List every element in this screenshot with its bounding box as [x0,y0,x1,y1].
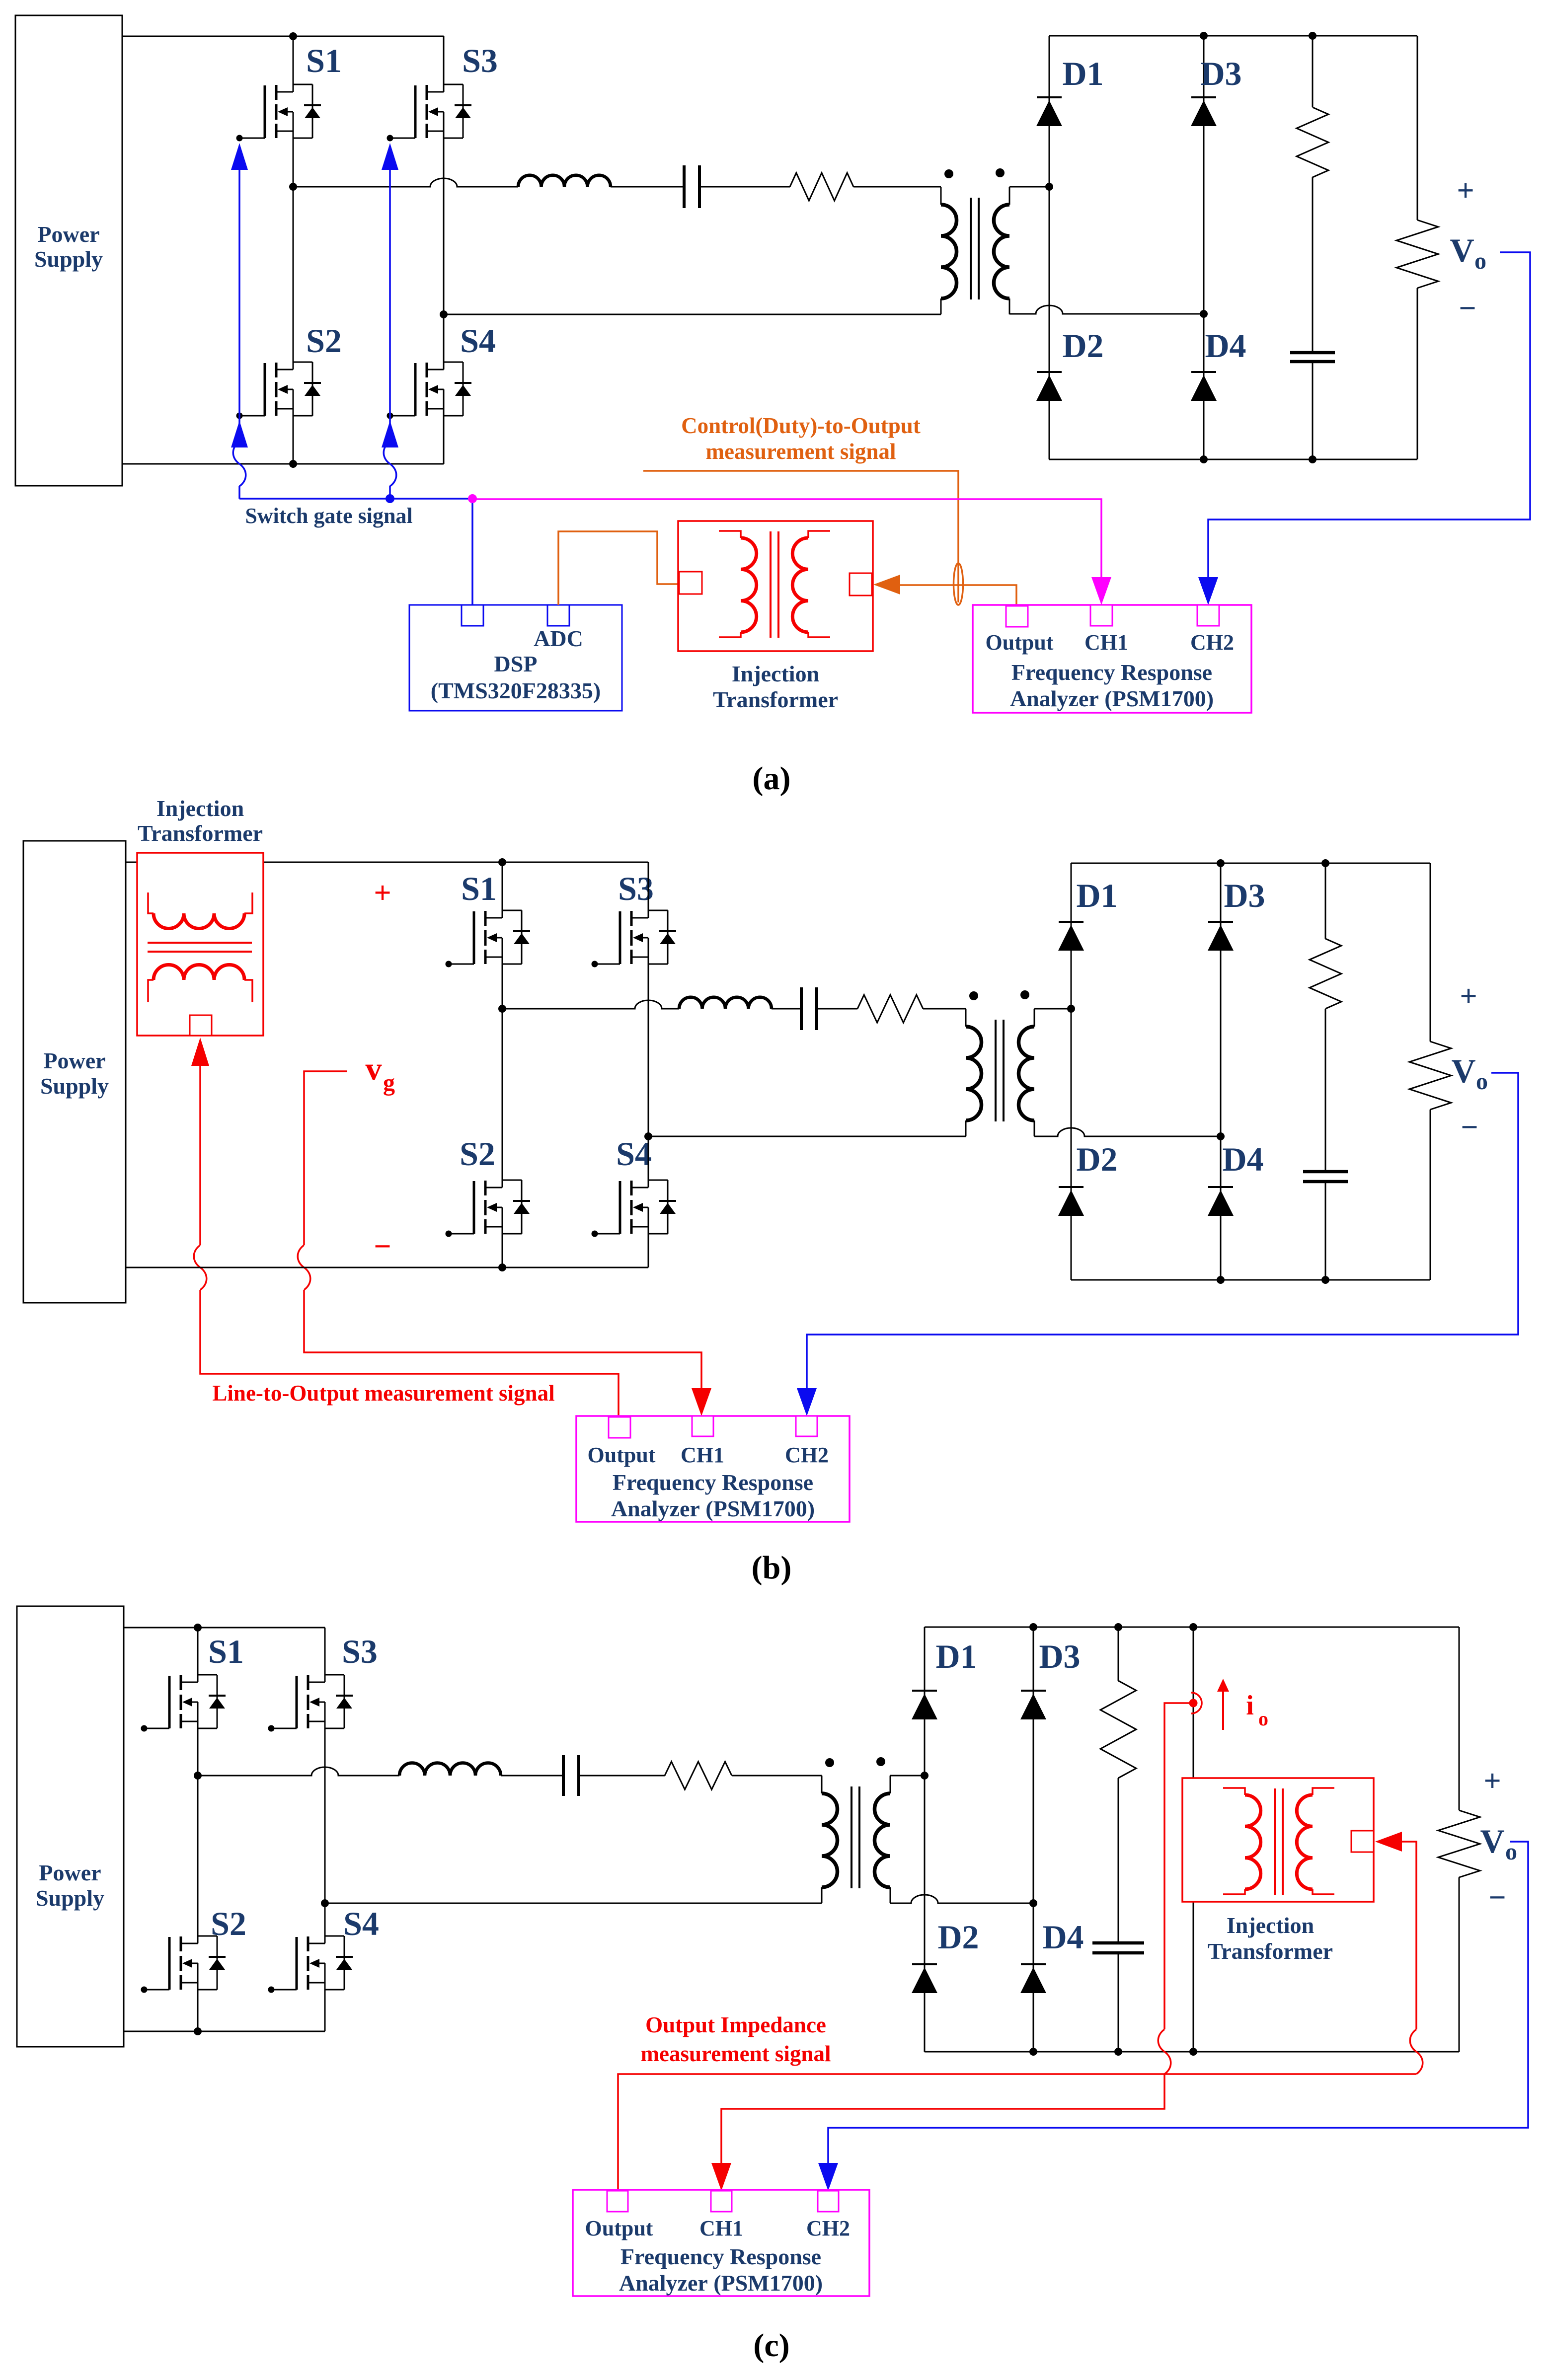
resistor Rr (b) [857,995,923,1023]
wire: secondary top to node A (c) [890,1775,925,1777]
wire: D3-D4 column (b) [1220,863,1222,1280]
svg-text:S4: S4 [616,1135,652,1173]
arrow into injection transformer (a) [873,575,900,595]
wire: bridge bottom rail (c) [925,2051,1459,2053]
node B (b) [1217,1132,1225,1140]
wire: S4 drain (b) [648,1136,649,1180]
svg-text:−: − [1488,1881,1506,1915]
wire: S2 source (a) [293,416,294,464]
wire: secondary bottom with hop (c) [890,1895,1033,1903]
diode D1 (b) [1058,922,1084,951]
transistor S2 (c) [141,1936,226,1993]
wire: S2 source (b) [502,1234,503,1267]
transformer T1 (b) [966,990,1034,1136]
svg-text:−: − [1459,292,1476,325]
arrow into CH2 (a) [1198,577,1218,605]
svg-text:D4: D4 [1042,1918,1084,1956]
port left (a) [679,572,702,594]
wire: secondary top to node A (a) [1009,186,1049,188]
svg-text:Transformer: Transformer [1208,1938,1333,1964]
wire: bottom rail (a) [122,463,444,465]
wire: load branch (c) [1459,1627,1460,1810]
injection transformer box (c) [1182,1778,1374,1902]
svg-text:S2: S2 [460,1135,495,1173]
wire: FRA output to injection transformer, red (c) [618,2074,1416,2190]
load resistor Ro (c) [1438,1810,1480,1877]
svg-text:CH1: CH1 [1084,630,1128,655]
transformer T1 (a) [941,168,1009,314]
wire: D1-D2 column (b) [1071,863,1072,1280]
frequency response analyzer box (a) [973,605,1251,713]
power supply box (c) [17,1606,124,2047]
wire: tank rail with hop (c) [198,1767,399,1776]
arrow into injection port, red (c) [1375,1832,1402,1852]
wire: bus to DSP, blue (a) [471,499,473,605]
svg-text:V: V [1480,1822,1504,1860]
svg-text:o: o [1505,1839,1517,1865]
node: S3-S4 mid (b) [644,1132,652,1140]
cable oval marker (a) [954,563,963,605]
node: S2 source junction (a) [289,460,297,468]
transistor S4 (b) [592,1180,677,1237]
svg-text:Injection: Injection [156,796,244,821]
svg-text:CH2: CH2 [1190,630,1234,655]
nodes bottom rail (b) [1217,1276,1225,1284]
wire (a) [611,186,684,188]
wire: gate signal bus, blue (a) [239,498,472,500]
svg-text:o: o [1474,248,1486,274]
wire: S3 source (b) [648,964,649,1136]
svg-text:Supply: Supply [40,1073,109,1099]
wire: S3 source to node (a) [443,138,445,314]
svg-text:+: + [1457,174,1474,208]
wire: load branch (a) [1417,36,1418,220]
arrow into CH2, blue (c) [818,2163,838,2191]
wire: io measurement to CH1, red (c) [1164,1703,1189,2029]
svg-text:Supply: Supply [34,246,103,272]
wire: gate signal line S3-S4, blue (a) [389,170,391,442]
svg-text:o: o [1476,1068,1488,1095]
arrow into CH1, red (c) [711,2163,731,2191]
node: bus junction (a) [386,494,394,503]
wire: tank rail with hop (b) [502,1000,679,1009]
svg-text:Output: Output [585,2216,653,2240]
arrow to S1 gate (a) [231,143,248,170]
wire (b) [817,1008,857,1010]
capacitor Cr (b) [801,987,817,1030]
node A (b) [1067,1005,1075,1013]
transistor S4 (c) [268,1936,353,1993]
diode D4 (a) [1191,372,1217,401]
node: top rail junctions (a) [1200,32,1208,40]
svg-text:CH2: CH2 [806,2216,850,2240]
wire: S1 source (b) [502,964,503,1009]
svg-text:D1: D1 [1076,877,1117,914]
arrow to S2 gate (a) [231,421,248,447]
DSP box (a) [409,605,622,711]
diode D4 (b) [1208,1187,1234,1216]
svg-text:D2: D2 [937,1918,979,1956]
capacitor Cr (a) [684,165,699,208]
svg-text:(TMS320F28335): (TMS320F28335) [431,678,601,703]
svg-text:DSP: DSP [494,651,538,676]
transistor S1 (c) [141,1675,226,1732]
wire: secondary top to node A (b) [1034,1008,1071,1010]
transistor S3 (a) [387,84,472,142]
svg-text:Analyzer (PSM1700): Analyzer (PSM1700) [611,1496,815,1521]
svg-text:+: + [1483,1764,1501,1798]
arrow into injection port, red (b) [191,1038,209,1066]
svg-text:(b): (b) [752,1550,792,1586]
wire: gate tap to CH1, magenta (a) [472,499,1101,577]
wire: bridge bottom rail (a) [1049,459,1417,460]
svg-text:CH1: CH1 [681,1443,724,1467]
wire: Vo sense to CH2, blue (a) [1208,252,1530,579]
svg-text:v: v [366,1051,382,1087]
node: S1-S2 mid (b) [498,1005,506,1013]
load resistor Ro (b) [1409,1041,1451,1110]
resistor Rr (a) [790,173,853,201]
wire: top rail (a) [122,36,444,37]
wire: FRA output to injection transformer, orange (a) [900,585,1016,606]
node B junction (a) [1200,310,1208,318]
current probe dot, red (c) [1189,1699,1198,1708]
wire: secondary bottom with hop (b) [1034,1128,1221,1136]
node: S1 drain (c) [194,1624,202,1632]
wire: S4 source (a) [443,416,445,464]
port bottom (b) [190,1015,212,1036]
wire: DSP ADC to injection transformer, orange (a) [558,531,679,605]
diode D2 (b) [1058,1187,1084,1216]
svg-text:S1: S1 [208,1633,244,1670]
capacitor Cr (c) [563,1755,579,1796]
node A junction (a) [1045,183,1053,191]
diode D2 (c) [912,1964,937,1993]
wire: injection drive, red (b) [199,1066,201,1245]
wire: damping branch (b) [1325,863,1326,939]
svg-text:+: + [374,876,391,910]
diode D1 (c) [912,1691,937,1719]
svg-text:D4: D4 [1222,1140,1263,1178]
arrow to S4 gate (a) [382,421,398,447]
wire: top rail left of injection box (b) [126,862,138,863]
arrow into CH2, blue (b) [797,1388,817,1416]
power supply box (a) [15,15,122,486]
wire (b) [772,1008,801,1010]
node: S1 drain junction (a) [289,32,297,40]
transistor S2 (b) [446,1180,531,1237]
svg-text:D1: D1 [1062,55,1103,92]
wire: lower tank rail (b) [648,1136,966,1137]
svg-text:S2: S2 [211,1905,246,1942]
wire: S3 source (c) [324,1728,326,1903]
node: S2 source (c) [194,2027,202,2035]
svg-text:Output Impedance: Output Impedance [645,2012,826,2037]
wire: lower tank rail (a) [444,314,941,315]
svg-text:D1: D1 [935,1637,977,1675]
port right (c) [1351,1831,1374,1852]
svg-text:S3: S3 [462,42,498,79]
injection transformer windings (a) [719,531,830,638]
svg-text:Power: Power [43,1048,105,1073]
inductor Lr (a) [518,175,611,187]
wire (a) [699,186,790,188]
wire: S3 drain (b) [648,862,649,910]
load resistor Ro (a) [1396,220,1438,288]
current probe arc, red (c) [1191,1693,1202,1713]
wire: load branch (b) [1430,863,1431,1041]
transistor S2 (a) [236,362,321,419]
svg-text:(a): (a) [753,760,791,797]
svg-text:Control(Duty)-to-Output: Control(Duty)-to-Output [681,413,921,438]
wire: bridge top rail (b) [1071,863,1430,864]
resistor Rc (a) [1297,107,1328,177]
diode D3 (b) [1208,922,1234,951]
wire: D3-D4 column (c) [1033,1627,1034,2052]
port right (a) [850,573,872,595]
svg-text:D2: D2 [1062,327,1103,365]
wire: S1 source (c) [197,1728,199,1776]
wire: gate signal line S1-S2, blue (a) [238,170,240,442]
wire: S2 source (c) [197,1990,199,2031]
wire: Vo sense to CH2, blue (c) [828,1842,1528,2163]
wire: vg sense, red (b) [304,1071,347,1245]
node: S1-S2 mid (c) [194,1772,202,1780]
transistor S4 (a) [387,362,472,419]
svg-text:CH2: CH2 [785,1443,829,1467]
svg-text:Transformer: Transformer [713,687,838,712]
arrow into CH1, red (b) [692,1388,711,1416]
node B (c) [1029,1899,1037,1907]
svg-text:measurement signal: measurement signal [706,439,896,464]
wire: bridge top rail (a) [1049,35,1417,37]
transistor S3 (b) [592,910,677,967]
frequency response analyzer box (b) [576,1416,850,1522]
wire: control measurement pointer, orange (a) [643,471,958,602]
wire: tank rail with hop over S3 column (a) [293,178,518,187]
svg-text:Analyzer (PSM1700): Analyzer (PSM1700) [619,2270,823,2296]
wire: D3-D4 column (a) [1203,36,1205,459]
diode D4 (c) [1020,1964,1046,1993]
node: magenta tap (a) [468,494,477,503]
wire (c) [501,1775,563,1777]
svg-text:Supply: Supply [36,1885,104,1911]
svg-text:Analyzer (PSM1700): Analyzer (PSM1700) [1010,686,1214,711]
inductor Lr (b) [679,997,772,1009]
node A (c) [921,1772,929,1780]
wire: bridge top rail (c) [925,1627,1459,1628]
wire: top rail (c) [124,1627,325,1629]
frequency response analyzer box (c) [573,2190,869,2296]
arrow to S3 gate (a) [382,143,398,170]
svg-text:Power: Power [39,1860,101,1885]
svg-text:measurement signal: measurement signal [641,2041,831,2066]
svg-text:D2: D2 [1076,1140,1117,1178]
transistor S3 (c) [268,1675,353,1732]
node: S2 source (b) [498,1264,506,1271]
arrow into CH1 (a) [1091,577,1111,605]
injection transformer box (b) [137,853,263,1036]
wire to transformer (a) [853,186,941,188]
wire: D1-D2 column (c) [924,1627,926,2052]
wire: bridge bottom rail (b) [1071,1279,1430,1281]
nodes bottom rail (c) [1029,2048,1037,2056]
injection transformer windings (b) [148,892,252,1002]
svg-text:Power: Power [37,222,99,247]
diode D2 (a) [1036,372,1062,401]
svg-text:Injection: Injection [732,661,819,686]
wire: S4 source (b) [648,1234,649,1267]
svg-text:Transformer: Transformer [138,820,263,846]
wire: S1 drain (c) [197,1628,199,1675]
transistor S1 (a) [236,84,321,142]
capacitor Co (a) [1290,353,1335,362]
svg-text:Frequency Response: Frequency Response [1011,660,1212,685]
node: bottom rail junctions (a) [1200,455,1208,463]
svg-text:+: + [1460,979,1477,1013]
svg-text:S3: S3 [342,1633,378,1670]
svg-text:V: V [1451,1052,1475,1090]
capacitor Co (c) [1092,1943,1144,1953]
transformer T1 (c) [822,1757,890,1903]
svg-text:D3: D3 [1224,877,1265,914]
svg-text:−: − [1461,1111,1478,1144]
node: S1 drain (b) [498,858,506,866]
wire: top rail right of injection box (b) [262,862,648,863]
injection transformer windings (c) [1223,1788,1334,1895]
resistor Rr (c) [665,1762,732,1789]
wire: injection column (c) [1193,1627,1194,1781]
diode D3 (a) [1191,97,1217,126]
wire: bottom rail (c) [124,2031,325,2032]
svg-text:D3: D3 [1200,55,1241,92]
svg-text:D4: D4 [1205,327,1246,365]
svg-text:S1: S1 [461,870,497,907]
wire: D1-D2 column (a) [1049,36,1050,459]
injection transformer box (a) [678,521,873,651]
wire (c) [732,1775,822,1777]
wire: S1 source to node (a) [293,138,294,187]
svg-text:Output: Output [986,630,1054,655]
svg-text:Line-to-Output measurement sig: Line-to-Output measurement signal [212,1381,554,1406]
diode D1 (a) [1036,97,1062,126]
inductor Lr (c) [399,1763,501,1776]
svg-text:ADC: ADC [534,626,583,651]
transistor S1 (b) [446,910,531,967]
svg-text:V: V [1450,231,1474,269]
svg-text:D3: D3 [1039,1637,1080,1675]
resistor Rc (c) [1100,1681,1136,1778]
resistor Rc (b) [1310,939,1341,1009]
capacitor Co (b) [1303,1172,1348,1182]
wire: S3 drain (c) [324,1628,326,1675]
wire: S1 drain (a) [293,36,294,84]
wire: S2 drain (b) [502,1009,503,1180]
wire (b) [923,1008,966,1010]
wire: S4 drain (a) [443,314,445,362]
svg-text:Injection: Injection [1227,1913,1314,1938]
wire: damping branch (c) [1118,1627,1119,1681]
wire: S2 drain (a) [293,187,294,362]
wire: secondary bottom with hop over D1 column (a) [1009,305,1204,314]
nodes top rail (b) [1217,859,1225,867]
svg-text:i: i [1246,1690,1254,1721]
io arrow, red (c) [1222,1691,1224,1730]
node: S3-S4 mid (c) [321,1899,329,1907]
wire: S4 drain (c) [324,1903,326,1936]
svg-text:CH1: CH1 [699,2216,743,2240]
svg-text:(c): (c) [753,2327,789,2364]
power supply box (b) [23,841,126,1303]
svg-text:S2: S2 [306,322,342,360]
wire: lower tank rail (c) [325,1903,822,1904]
node: S3-S4 midpoint (a) [440,310,448,318]
svg-text:−: − [374,1230,391,1264]
svg-text:S4: S4 [343,1905,379,1942]
wire: bottom rail (b) [126,1267,648,1268]
svg-text:S4: S4 [460,322,496,360]
svg-text:Output: Output [588,1443,656,1467]
svg-text:Frequency Response: Frequency Response [613,1470,813,1495]
wire: S2 drain (c) [197,1776,199,1936]
svg-text:S1: S1 [306,42,342,79]
wire: S4 source (c) [324,1990,326,2031]
diode D3 (c) [1020,1691,1046,1719]
nodes top rail (c) [1029,1623,1037,1631]
wire: Vo sense to CH2, blue (b) [807,1073,1518,1388]
node: S1-S2 midpoint (a) [289,183,297,191]
wire (c) [579,1775,665,1777]
svg-text:Frequency Response: Frequency Response [620,2244,821,2269]
wire: S1 drain (b) [502,862,503,910]
wire: S3 drain (a) [443,36,445,84]
svg-text:g: g [383,1070,395,1096]
svg-text:Switch gate signal: Switch gate signal [245,504,412,528]
wire: damping branch (a) [1312,36,1314,107]
svg-text:o: o [1258,1708,1268,1730]
